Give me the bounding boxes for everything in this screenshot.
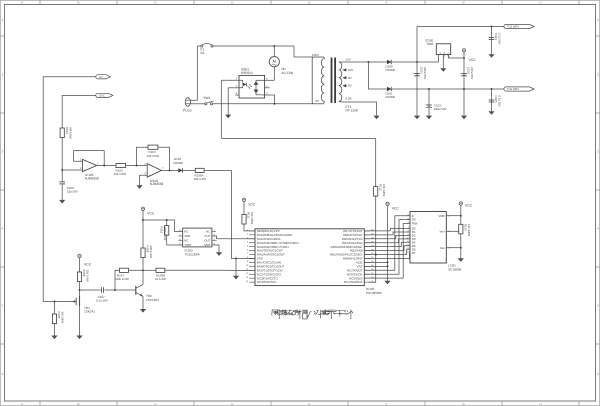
svg-text:OUT: OUT [447, 53, 450, 59]
svg-text:10k 1/4W: 10k 1/4W [86, 270, 90, 282]
svg-text:C105: C105 [494, 96, 498, 103]
svg-text:680 1/4W: 680 1/4W [149, 246, 153, 259]
svg-text:R114: R114 [463, 224, 467, 231]
svg-text:VDD: VDD [184, 234, 190, 238]
svg-text:PIC16F886: PIC16F886 [366, 291, 382, 295]
svg-text:OUT: OUT [204, 239, 210, 243]
svg-text:PLUG: PLUG [183, 109, 192, 113]
svg-text:TO1 MPX: TO1 MPX [507, 26, 519, 29]
svg-text:R110: R110 [159, 227, 163, 234]
svg-text:RC3/SCK/SCL: RC3/SCK/SCL [257, 280, 277, 284]
svg-text:Vref: Vref [439, 229, 444, 233]
svg-text:IN: IN [439, 53, 442, 56]
svg-text:AC-FAN: AC-FAN [282, 71, 294, 75]
svg-text:OUT: OUT [204, 234, 210, 238]
svg-text:7805: 7805 [427, 42, 434, 46]
svg-text:220u 50V: 220u 50V [434, 107, 447, 111]
svg-text:H: H [539, 402, 541, 406]
svg-text:100V: 100V [312, 53, 319, 57]
svg-text:0.1u 50V: 0.1u 50V [498, 96, 502, 108]
svg-text:3M 1/8W: 3M 1/8W [68, 127, 72, 139]
svg-text:12V: 12V [346, 58, 351, 62]
svg-text:10V: 10V [348, 68, 353, 72]
svg-text:A: A [21, 1, 23, 5]
svg-text:LO: LO [99, 76, 103, 79]
svg-text:43k 1/4W: 43k 1/4W [114, 172, 127, 176]
svg-text:VCC: VCC [147, 211, 155, 215]
svg-text:DIODE: DIODE [386, 68, 395, 72]
svg-text:DIODE: DIODE [386, 95, 395, 99]
svg-text:HT-1208: HT-1208 [346, 109, 358, 113]
svg-text:0V: 0V [316, 99, 320, 103]
svg-text:R108: R108 [82, 270, 86, 277]
svg-text:NC: NC [184, 230, 188, 234]
svg-text:R112: R112 [378, 184, 382, 191]
svg-text:F: F [386, 1, 388, 5]
svg-text:0.1u 50V: 0.1u 50V [96, 298, 108, 302]
svg-text:+: + [149, 174, 151, 178]
svg-text:R109: R109 [146, 246, 150, 253]
svg-text:R/W: R/W [412, 222, 418, 226]
svg-text:RC4/SDI/SDA: RC4/SDI/SDA [344, 280, 363, 284]
svg-text:8V: 8V [348, 76, 352, 80]
svg-text:10k 1/4W: 10k 1/4W [194, 177, 207, 181]
svg-text:10k 1/4W: 10k 1/4W [147, 154, 160, 158]
svg-text:NJM4558: NJM4558 [150, 182, 164, 186]
svg-text:10k 1/8W: 10k 1/8W [467, 224, 471, 236]
svg-text:B: B [77, 1, 79, 5]
svg-text:E: E [308, 402, 310, 406]
svg-text:0.1u 50V: 0.1u 50V [498, 33, 502, 45]
svg-text:H: H [539, 1, 541, 5]
svg-text:1k 1/4W: 1k 1/4W [155, 277, 166, 281]
svg-text:GND: GND [204, 243, 210, 247]
svg-text:Vss: Vss [440, 246, 445, 250]
svg-text:VCC: VCC [465, 203, 473, 207]
svg-text:M: M [273, 58, 276, 63]
svg-text:D7: D7 [412, 251, 416, 255]
svg-text:DIODE: DIODE [174, 161, 183, 165]
svg-text:A: A [21, 402, 23, 406]
svg-text:B: B [77, 402, 79, 406]
svg-text:SW1: SW1 [204, 96, 211, 100]
svg-text:R111: R111 [247, 212, 251, 219]
svg-text:NC: NC [206, 230, 210, 234]
svg-text:C104: C104 [494, 33, 498, 40]
svg-text:VCC: VCC [248, 202, 256, 206]
svg-text:VCC: VCC [392, 207, 400, 211]
svg-text:OSC: OSC [99, 95, 105, 98]
svg-text:TC622EPA: TC622EPA [185, 253, 201, 257]
svg-text:VCC: VCC [84, 263, 92, 267]
svg-text:VCC: VCC [469, 58, 477, 62]
svg-text:C101: C101 [420, 67, 424, 74]
svg-text:NJM4558: NJM4558 [85, 177, 99, 181]
svg-text:2SC1815: 2SC1815 [146, 298, 159, 302]
svg-text:100k 1/4W: 100k 1/4W [163, 227, 167, 241]
svg-text:F: F [386, 402, 388, 406]
svg-text:KSR221: KSR221 [241, 71, 253, 75]
svg-text:TSET: TSET [184, 243, 192, 247]
svg-text:C102: C102 [467, 67, 471, 74]
svg-text:NC: NC [184, 239, 188, 243]
svg-text:TO2 MPX: TO2 MPX [507, 88, 519, 91]
svg-text:2SK241: 2SK241 [84, 310, 95, 314]
svg-text:SC1602B: SC1602B [448, 268, 461, 272]
svg-text:0.8A: 0.8A [346, 96, 352, 100]
svg-text:R105: R105 [57, 312, 61, 319]
svg-text:6V: 6V [348, 84, 352, 88]
svg-text:220u 50V: 220u 50V [470, 67, 474, 79]
svg-text:10k 1/8W: 10k 1/8W [382, 184, 386, 196]
svg-text:10k 1/8W: 10k 1/8W [250, 212, 254, 224]
svg-text:1M 1/8W: 1M 1/8W [61, 312, 65, 324]
svg-text:220u 50V: 220u 50V [423, 67, 427, 79]
svg-text:+: + [84, 168, 86, 172]
svg-text:22p 50V: 22p 50V [67, 190, 78, 194]
svg-text:100k 1/4W: 100k 1/4W [115, 277, 129, 281]
svg-text:VDD: VDD [439, 214, 445, 218]
svg-text:E: E [308, 1, 310, 5]
